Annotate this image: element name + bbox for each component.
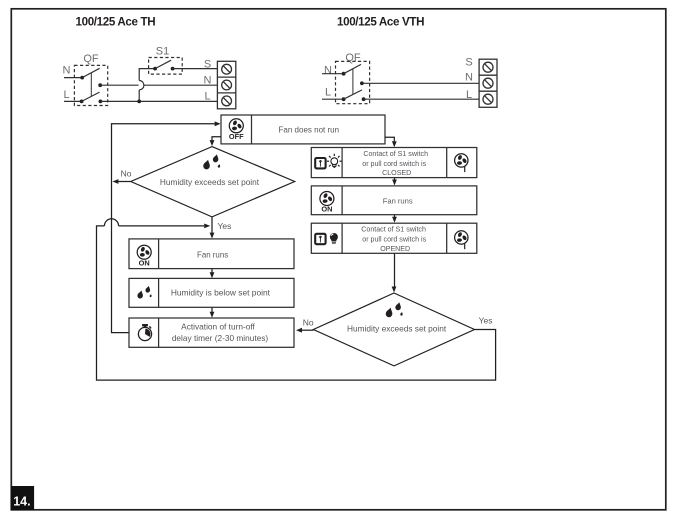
svg-text:Humidity exceeds set point: Humidity exceeds set point <box>160 177 260 187</box>
svg-text:N: N <box>204 74 212 86</box>
svg-text:Humidity exceeds set point: Humidity exceeds set point <box>347 324 447 334</box>
svg-text:L: L <box>325 86 331 98</box>
svg-text:Contact of S1 switch: Contact of S1 switch <box>361 226 426 234</box>
svg-text:Fan runs: Fan runs <box>383 197 413 206</box>
svg-text:N: N <box>324 65 332 77</box>
svg-text:OPENED: OPENED <box>380 245 410 253</box>
svg-text:L: L <box>63 89 69 101</box>
svg-text:Fan runs: Fan runs <box>197 250 228 259</box>
svg-text:S: S <box>465 56 472 68</box>
svg-text:No: No <box>121 169 132 179</box>
svg-text:14.: 14. <box>13 494 30 508</box>
svg-text:or pull cord switch is: or pull cord switch is <box>362 236 426 244</box>
svg-text:Humidity is below set point: Humidity is below set point <box>171 288 271 298</box>
svg-text:Yes: Yes <box>479 316 493 326</box>
svg-text:delay timer (2-30 minutes): delay timer (2-30 minutes) <box>172 333 269 343</box>
svg-text:No: No <box>303 317 314 327</box>
svg-text:L: L <box>204 91 210 103</box>
svg-text:QF: QF <box>83 53 99 65</box>
svg-text:S1: S1 <box>156 46 169 58</box>
svg-text:ON: ON <box>139 258 150 267</box>
svg-text:or pull cord switch is: or pull cord switch is <box>362 160 426 168</box>
svg-text:Yes: Yes <box>218 221 232 231</box>
svg-text:100/125 Ace VTH: 100/125 Ace VTH <box>337 15 424 28</box>
svg-text:QF: QF <box>345 52 361 64</box>
svg-text:100/125 Ace TH: 100/125 Ace TH <box>76 15 156 28</box>
svg-text:OFF: OFF <box>229 132 244 141</box>
svg-text:N: N <box>465 71 473 83</box>
svg-text:Activation of turn-off: Activation of turn-off <box>181 321 255 331</box>
svg-text:Fan does not run: Fan does not run <box>279 126 339 135</box>
svg-text:Contact of S1 switch: Contact of S1 switch <box>363 150 428 158</box>
svg-text:CLOSED: CLOSED <box>382 169 411 177</box>
svg-text:N: N <box>63 65 71 77</box>
svg-text:ON: ON <box>321 205 332 214</box>
